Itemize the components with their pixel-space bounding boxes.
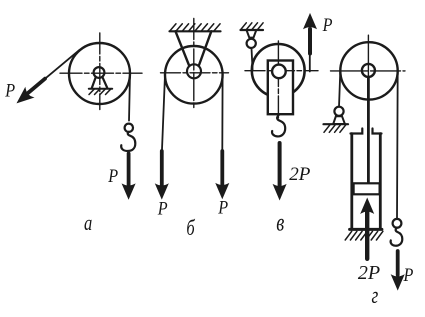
rope B right [221,75,223,150]
svg-text:P: P [4,79,15,101]
force arrow P up (v) [304,14,316,53]
svg-text:б: б [186,217,195,241]
rope G left [339,71,340,107]
hook ring G [393,219,402,228]
hook G [391,228,403,246]
anchor bracket G [333,116,345,124]
hatching under A bracket [89,89,111,94]
rope G right [396,71,399,219]
hatching G anchor [324,125,346,133]
axle circle G [362,64,375,77]
anchor ring V [247,39,256,48]
force arrow 2P up (g) [361,199,373,259]
ground line G anchor [324,123,349,125]
axle circle of A [94,67,105,78]
svg-text:г: г [372,281,379,309]
frame top right lip G [373,129,382,134]
centerline vertical G (above wheel) [367,35,369,63]
centerline vertical A [99,33,101,110]
centerline horizontal V [245,70,318,72]
force arrow 2P below V hook [274,143,286,199]
anchor bracket V [247,30,257,38]
centerline vertical V [277,41,279,118]
force arrow P below B right [216,151,228,198]
axle circle V [272,65,286,79]
pulley A wheel [69,43,130,104]
force arrow P below A hook [123,154,135,199]
centerline horizontal B [161,72,229,74]
centerline horizontal A [60,72,142,74]
pulley G wheel [340,42,397,99]
axle cross line G [367,65,369,77]
frame bottom G [350,228,382,231]
hatching under frame G [345,231,383,240]
svg-text:P: P [322,14,333,36]
hook A [121,132,135,151]
svg-text:а: а [84,212,92,236]
svg-text:2P: 2P [289,164,311,185]
ceiling hatching B [170,24,220,31]
bearing bracket of A [92,77,108,88]
hanger bracket B [176,31,212,66]
piston G [354,183,380,194]
frame top left lip G [351,129,363,134]
rope A right [129,74,130,121]
rope A left (diagonal) [44,50,80,80]
rope V right [309,54,311,72]
svg-text:в: в [276,208,284,236]
ceiling line V [241,29,264,31]
ground line under A bracket [89,88,112,90]
svg-text:P: P [157,197,168,219]
svg-text:P: P [217,196,228,218]
svg-text:P: P [403,264,414,286]
anchor ring G [334,107,343,116]
ceiling hatching V [241,23,263,30]
frame right wall G [379,134,382,229]
pulley B wheel [165,46,223,104]
force arrow P left of A [18,79,46,103]
svg-text:P: P [107,165,118,187]
force arrow P below B left [156,151,168,198]
pulley V wheel [252,44,305,97]
rope B left [162,75,165,150]
frame left wall G [350,134,353,229]
force arrow P down (g) [392,251,404,289]
rope V left [252,48,253,70]
ceiling line B [170,30,221,32]
yoke rectangle V [268,61,293,115]
centerline vertical B [193,19,195,109]
rod G [367,70,370,184]
hook V [272,114,285,136]
centerline horizontal G [331,70,406,72]
axle circle B [187,64,201,78]
hook ring A [125,124,133,132]
